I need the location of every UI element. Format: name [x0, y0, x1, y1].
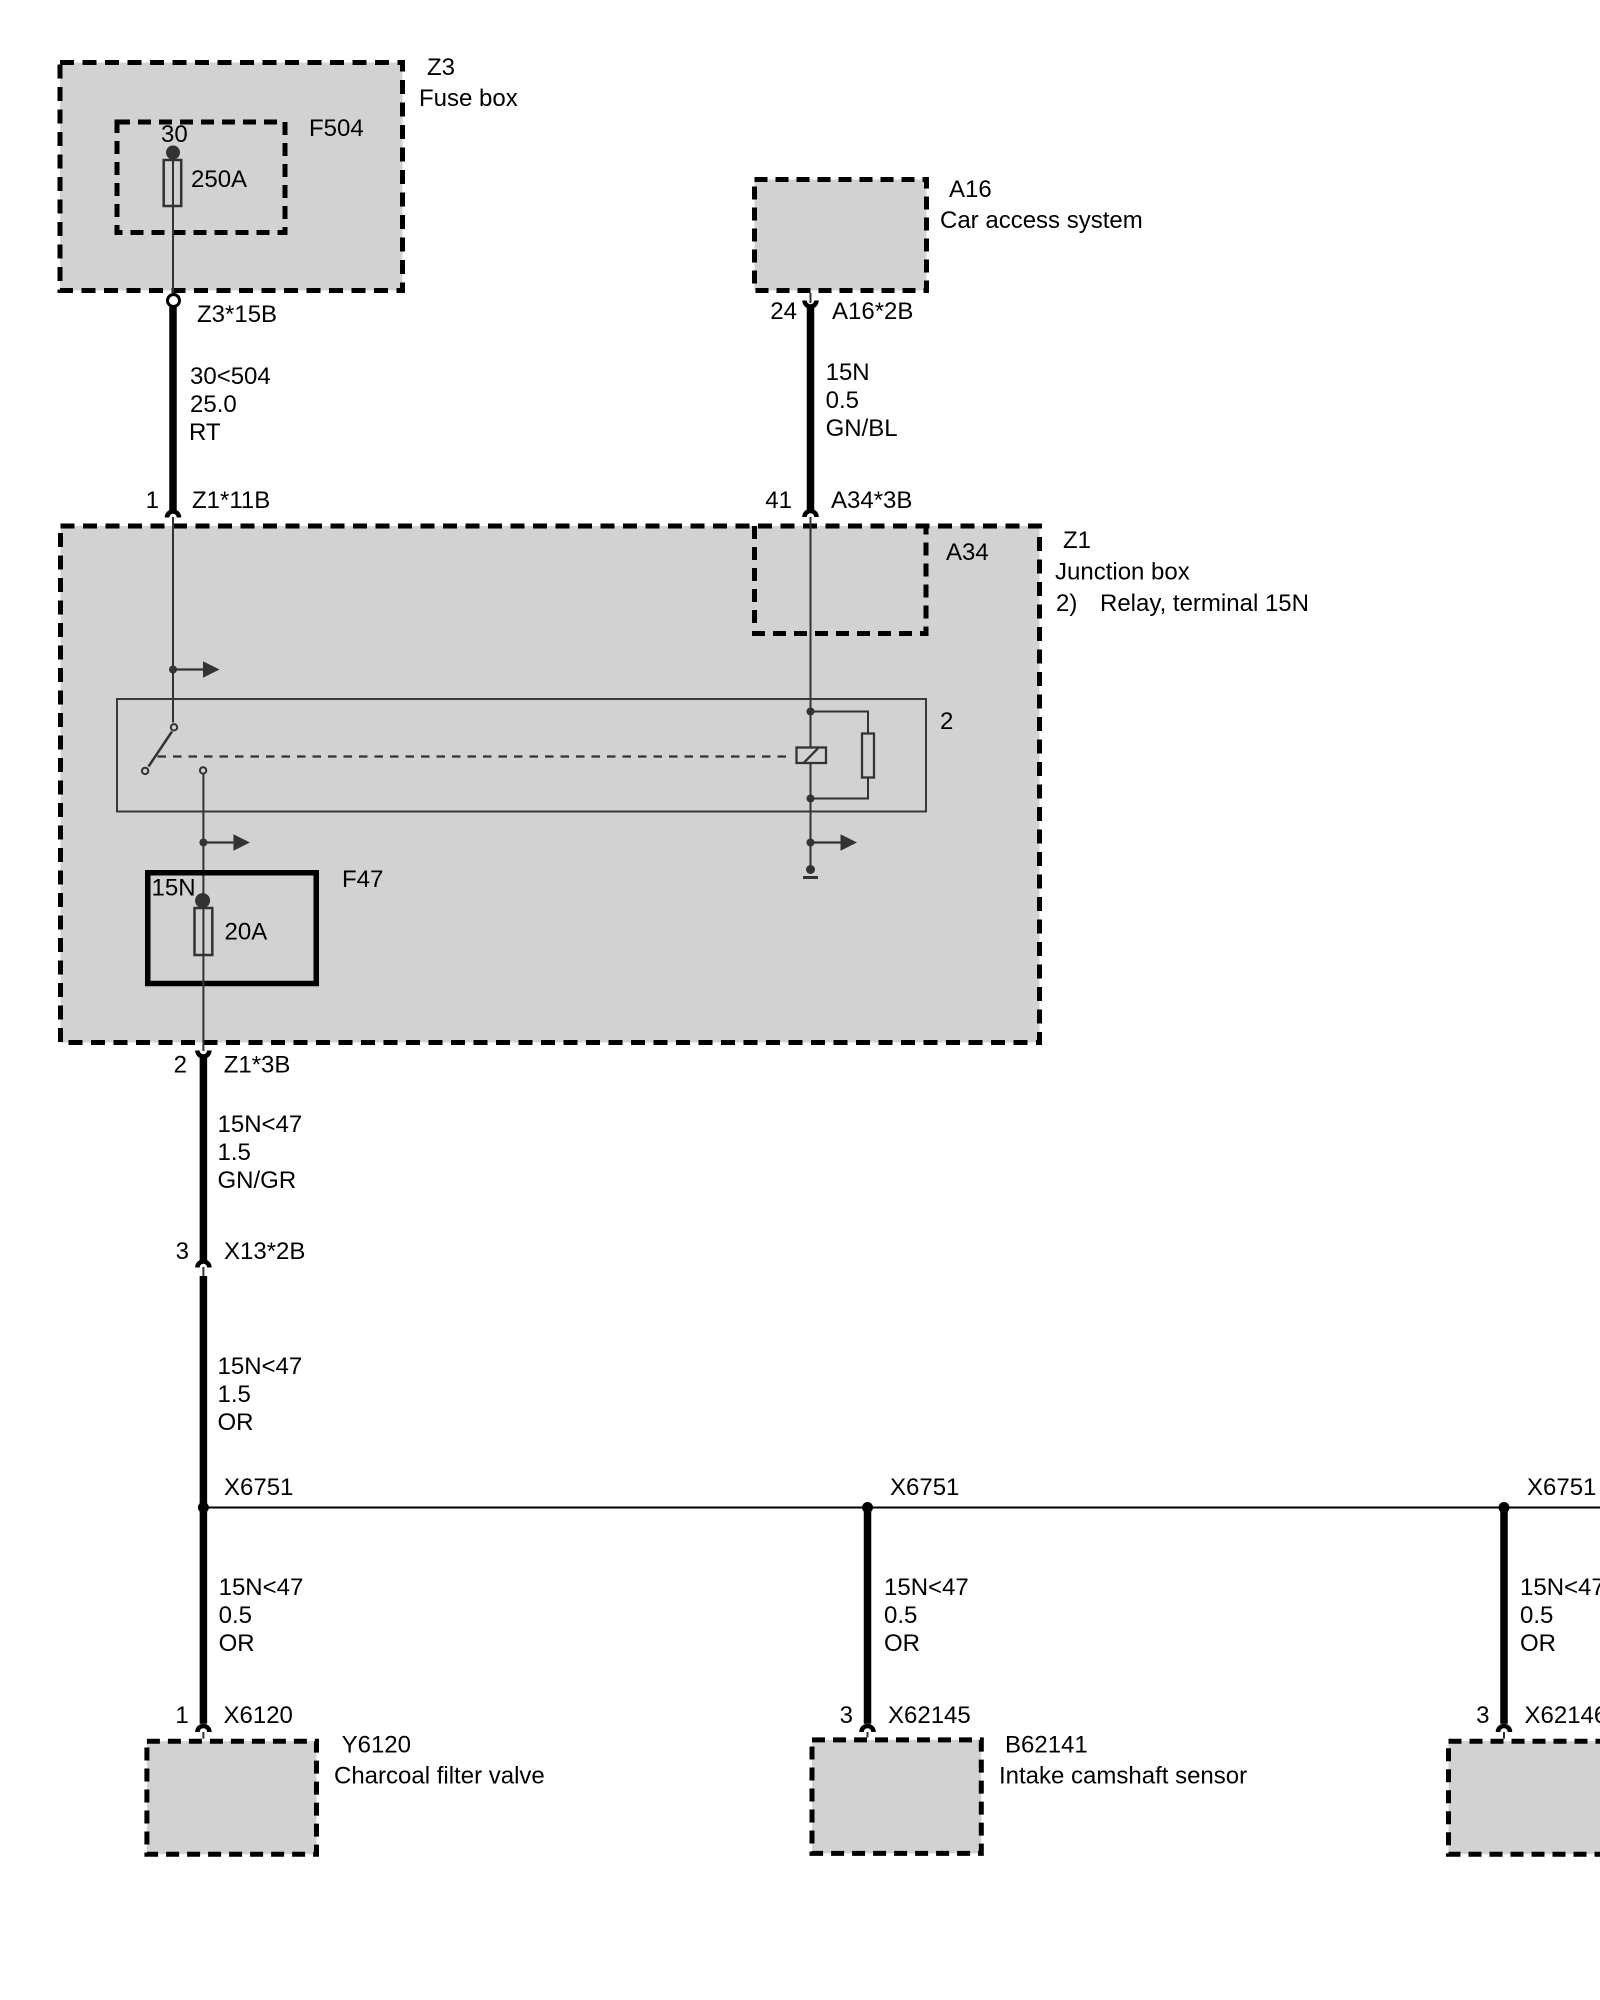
svg-text:0.5: 0.5 [884, 1602, 917, 1629]
svg-text:Relay, terminal 15N: Relay, terminal 15N [1100, 590, 1309, 617]
wire 15N<47 0.5 OR (right branch) [1504, 1508, 1600, 1724]
svg-text:Z1*3B: Z1*3B [224, 1052, 291, 1079]
svg-text:A16*2B: A16*2B [832, 298, 913, 325]
relay switch [142, 724, 206, 774]
svg-text:A34*3B: A34*3B [831, 487, 912, 514]
splice node X6751 (left) [198, 1474, 294, 1513]
fuse holder F504 [117, 115, 364, 233]
wire 15N<47 1.5 OR [203, 1276, 302, 1508]
bus wire X6751 [203, 1507, 1600, 1509]
junction dot with arrow (top left) [169, 661, 220, 678]
connector X62145 pin 3 [840, 1702, 971, 1737]
node 30 terminal dot [161, 121, 188, 160]
connector X13*2B pin 3 [176, 1238, 306, 1276]
wire inside Z3 [172, 153, 174, 295]
connector X6120 pin 1 [175, 1702, 293, 1739]
svg-text:2: 2 [940, 708, 953, 735]
svg-text:30<504: 30<504 [190, 363, 271, 390]
svg-text:X6751: X6751 [224, 1474, 293, 1501]
fuse F47 terminal dot [195, 893, 210, 908]
fuse F47 20A [195, 908, 268, 955]
svg-text:Z1: Z1 [1063, 527, 1091, 554]
svg-text:15N: 15N [152, 875, 196, 902]
junction box Z1 [61, 526, 1309, 1043]
svg-text:1: 1 [175, 1702, 188, 1729]
svg-text:X6120: X6120 [224, 1702, 293, 1729]
wire 15N<47 0.5 OR (left branch) [203, 1508, 303, 1724]
svg-text:15N<47: 15N<47 [884, 1574, 969, 1601]
svg-text:A34: A34 [946, 539, 989, 566]
svg-text:41: 41 [765, 487, 792, 514]
svg-text:1.5: 1.5 [218, 1139, 251, 1166]
terminal circle Z3*15B [168, 295, 278, 329]
svg-text:X62146: X62146 [1525, 1702, 1600, 1729]
wire from Z1*11B into Z1 [172, 517, 174, 723]
svg-text:1: 1 [146, 487, 159, 514]
svg-text:Y6120: Y6120 [342, 1732, 411, 1759]
svg-text:RT: RT [189, 419, 221, 446]
wire from A34*3B to relay coil [810, 517, 812, 712]
svg-text:2: 2 [174, 1052, 187, 1079]
svg-text:15N<47: 15N<47 [219, 1574, 304, 1601]
ground [803, 865, 818, 878]
splice node X6751 (right) [1499, 1474, 1597, 1513]
junction dot with arrow (switch output) [199, 834, 250, 851]
valve Y6120 Charcoal filter valve [147, 1732, 545, 1855]
svg-text:A16: A16 [949, 176, 992, 203]
svg-text:Z3*15B: Z3*15B [197, 301, 277, 328]
connector Z1*11B pin 1 [146, 487, 271, 518]
svg-text:25.0: 25.0 [190, 391, 237, 418]
relay coil wiring and parallel resistor [807, 708, 875, 803]
module A34 sub-box [755, 526, 989, 634]
svg-text:GN/GR: GN/GR [218, 1167, 297, 1194]
svg-text:Fuse box: Fuse box [419, 85, 518, 112]
svg-text:OR: OR [884, 1630, 920, 1657]
sensor box (right, clipped) [1449, 1741, 1600, 1854]
svg-text:X6751: X6751 [1527, 1474, 1596, 1501]
svg-text:Intake camshaft sensor: Intake camshaft sensor [999, 1763, 1247, 1790]
svg-text:B62141: B62141 [1005, 1732, 1088, 1759]
svg-text:Car access system: Car access system [940, 207, 1143, 234]
relay actuation dashed line [158, 755, 791, 757]
svg-text:15N<47: 15N<47 [1520, 1574, 1600, 1601]
svg-text:30: 30 [161, 121, 188, 148]
sensor B62141 Intake camshaft sensor [812, 1732, 1247, 1854]
svg-text:24: 24 [770, 298, 797, 325]
wire from F47 to Z1*3B [202, 901, 204, 1051]
svg-text:250A: 250A [191, 166, 247, 193]
svg-text:Z3: Z3 [427, 54, 455, 81]
svg-text:1.5: 1.5 [218, 1381, 251, 1408]
svg-text:Z1*11B: Z1*11B [192, 487, 270, 514]
svg-text:GN/BL: GN/BL [826, 415, 898, 442]
wire 15N 0.5 GN/BL [811, 306, 898, 511]
svg-text:3: 3 [176, 1238, 189, 1265]
svg-text:Junction box: Junction box [1055, 559, 1190, 586]
svg-text:0.5: 0.5 [826, 387, 859, 414]
svg-text:Charcoal filter valve: Charcoal filter valve [334, 1763, 545, 1790]
relay coil [797, 748, 827, 764]
wire from switch to F47 [202, 774, 204, 900]
svg-text:X13*2B: X13*2B [224, 1238, 305, 1265]
connector A34*3B pin 41 [765, 487, 912, 517]
connector A16*2B pin 24 [770, 293, 913, 325]
svg-text:15N<47: 15N<47 [218, 1353, 303, 1380]
svg-text:F504: F504 [309, 115, 364, 142]
svg-text:2): 2) [1056, 590, 1077, 617]
svg-text:0.5: 0.5 [1520, 1602, 1553, 1629]
svg-text:F47: F47 [342, 866, 383, 893]
wire 15N<47 0.5 OR (middle branch) [868, 1508, 969, 1724]
svg-text:3: 3 [840, 1702, 853, 1729]
wire 30<504 25.0 RT [173, 307, 271, 512]
svg-text:X6751: X6751 [890, 1474, 959, 1501]
wire 15N<47 1.5 GN/GR [203, 1057, 302, 1261]
svg-text:X62145: X62145 [888, 1702, 971, 1729]
fuse F504 250A [164, 160, 247, 206]
svg-text:0.5: 0.5 [219, 1602, 252, 1629]
fuse box F47 [148, 866, 384, 984]
fuse box Z3 [60, 54, 518, 291]
module A16 Car access system [755, 176, 1143, 291]
svg-text:15N<47: 15N<47 [218, 1111, 303, 1138]
junction dot with arrow (right) [807, 834, 858, 851]
svg-text:OR: OR [218, 1409, 254, 1436]
svg-text:OR: OR [1520, 1630, 1556, 1657]
svg-text:20A: 20A [225, 919, 268, 946]
wire below relay to ground [810, 799, 812, 868]
splice node X6751 (middle) [862, 1474, 959, 1513]
connector Z1*3B pin 2 [174, 1051, 291, 1079]
svg-text:OR: OR [219, 1630, 255, 1657]
svg-text:15N: 15N [826, 359, 870, 386]
svg-text:3: 3 [1476, 1702, 1489, 1729]
connector X62146 pin 3 [1476, 1702, 1600, 1739]
relay enclosure 2 [117, 699, 953, 812]
